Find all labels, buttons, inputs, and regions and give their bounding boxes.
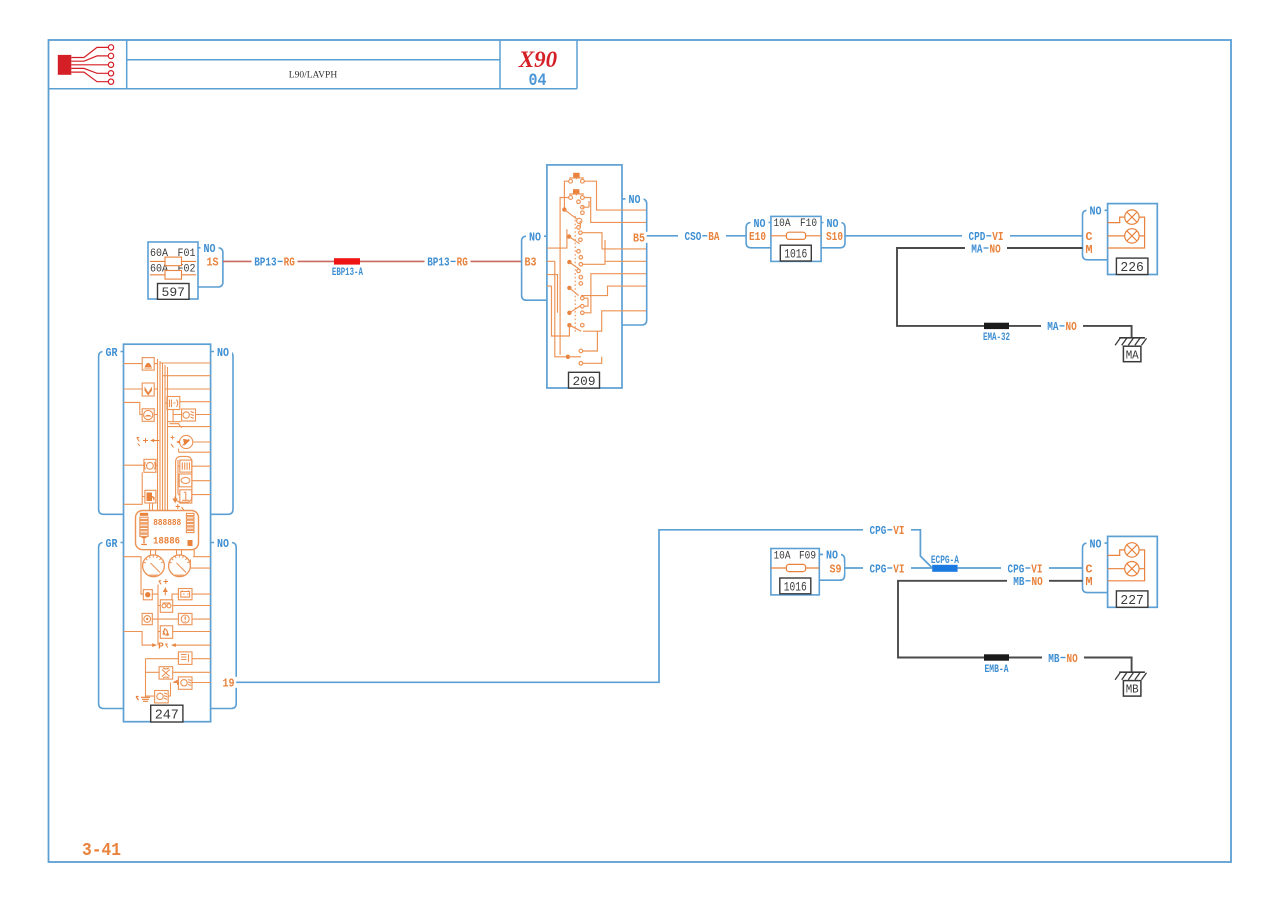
label NO (247 lower) <box>214 537 232 551</box>
svg-text:F10: F10 <box>800 218 817 230</box>
svg-text:3-41: 3-41 <box>82 841 121 861</box>
splice label EMA-32 <box>983 332 1010 344</box>
svg-text:NO: NO <box>1090 205 1102 219</box>
svg-text:MB: MB <box>1126 684 1139 697</box>
connector bracket NO/B3 on 209 <box>522 236 547 300</box>
pin S9 <box>827 562 844 576</box>
svg-text:GR: GR <box>106 537 119 551</box>
svg-text:247: 247 <box>155 708 179 724</box>
connector bracket NO/C/M on 227 <box>1083 543 1108 593</box>
pin B3 <box>523 256 540 270</box>
vehicle code L90/LAVPH <box>289 70 338 80</box>
svg-text:MB: MB <box>1048 652 1059 666</box>
sheet number 04 <box>529 71 547 91</box>
svg-text:209: 209 <box>573 374 596 389</box>
connector bracket NO/C/M on 226 <box>1083 210 1108 259</box>
connector bracket GR (247 lower) <box>99 543 124 709</box>
connector bracket NO/B5 on 209 <box>622 199 647 325</box>
sheet family X90 <box>518 47 558 72</box>
svg-text:04: 04 <box>529 71 547 91</box>
fuse box 1016 (F10) <box>771 216 821 261</box>
svg-text:M: M <box>1085 243 1092 257</box>
connector bracket NO/1S on 597 <box>198 248 223 287</box>
label NO (S10) <box>824 217 842 231</box>
svg-text:EMB-A: EMB-A <box>985 664 1009 676</box>
wire CPG-VI (S9 to splice) <box>845 567 933 569</box>
wire label BP13-RG (right) <box>425 255 471 269</box>
pin C (226) <box>1084 230 1094 244</box>
svg-text:1016: 1016 <box>784 580 807 595</box>
svg-text:MB: MB <box>1013 575 1024 589</box>
svg-text:10A: 10A <box>774 218 791 230</box>
splice label EBP13-A <box>332 267 363 279</box>
wire MA-NO (226 M to ground MA) <box>897 248 1132 338</box>
wire label MA-NO (lower) <box>1041 320 1083 334</box>
svg-text:B5: B5 <box>633 231 645 245</box>
wire CPG-VI (splice to 227) <box>958 567 1083 569</box>
svg-text:NO: NO <box>204 242 216 256</box>
svg-text:MA: MA <box>1047 320 1059 334</box>
svg-text:B3: B3 <box>525 256 537 270</box>
ground MB <box>1115 672 1146 697</box>
svg-text:18886: 18886 <box>153 536 180 548</box>
splice label EMB-A <box>985 664 1009 676</box>
svg-text:226: 226 <box>1120 261 1144 276</box>
svg-text:BP13: BP13 <box>427 256 449 270</box>
pin 1S <box>202 256 220 270</box>
splice label ECPG-A <box>931 555 959 567</box>
svg-text:NO: NO <box>1067 652 1078 666</box>
side lamp 226 <box>1108 204 1158 277</box>
pin M (227) <box>1084 575 1094 589</box>
svg-text:NO: NO <box>990 242 1001 256</box>
splice ECPG-A <box>932 565 957 572</box>
instrument cluster 247 <box>124 344 211 723</box>
splice EBP13-A <box>334 258 360 264</box>
wire label MB-NO (upper) <box>1007 575 1049 589</box>
fuse box 597 <box>148 242 198 300</box>
svg-text:NO: NO <box>629 193 641 207</box>
title block grid <box>49 40 578 89</box>
wire MB-NO (227 M to ground MB) <box>898 581 1132 672</box>
svg-text:CPG: CPG <box>870 524 887 538</box>
label NO (B5) <box>626 193 644 207</box>
connector bracket NO (247 upper) <box>211 352 233 515</box>
harness logo <box>58 45 114 85</box>
svg-text:EMA-32: EMA-32 <box>983 332 1010 344</box>
wire label CPG-VI (227) <box>1001 562 1049 576</box>
svg-text:VI: VI <box>893 562 904 576</box>
svg-text:GR: GR <box>106 346 119 360</box>
pin C (227) <box>1084 562 1094 576</box>
svg-text:597: 597 <box>162 285 186 300</box>
splice EMB-A <box>984 654 1009 660</box>
connector bracket NO/E10 <box>746 223 771 248</box>
svg-text:VI: VI <box>893 524 904 538</box>
side lamp 227 <box>1108 536 1158 609</box>
label NO (E10) <box>751 217 769 231</box>
connector bracket NO (247 lower) <box>211 543 237 709</box>
svg-text:E10: E10 <box>749 230 766 244</box>
switch assembly 209 <box>547 165 647 389</box>
svg-text:RG: RG <box>284 256 295 270</box>
svg-text:BA: BA <box>708 230 720 244</box>
label NO (247 upper) <box>214 346 232 360</box>
wire label CPG-VI (S9) <box>863 562 911 576</box>
svg-text:NO: NO <box>1066 320 1077 334</box>
wire label CSO-BA <box>678 230 726 244</box>
wire label MA-NO (upper) <box>965 242 1007 256</box>
svg-text:MA: MA <box>1126 349 1139 362</box>
pin 19 <box>220 677 238 691</box>
wire CPG-VI (247/19 to ECPG-A) <box>236 530 932 683</box>
svg-text:M: M <box>1085 575 1092 589</box>
svg-text:1016: 1016 <box>784 247 807 262</box>
svg-text:19: 19 <box>223 677 235 691</box>
wire CPD-VI <box>845 235 1083 237</box>
wire label CPG-VI (top run) <box>863 524 911 538</box>
pin M (226) <box>1084 243 1094 257</box>
svg-text:1S: 1S <box>207 256 219 270</box>
svg-text:888888: 888888 <box>153 518 181 528</box>
label NO (B3) <box>526 231 544 245</box>
svg-text:NO: NO <box>1032 575 1043 589</box>
label NO (227) <box>1087 537 1105 551</box>
svg-text:EBP13-A: EBP13-A <box>332 267 363 279</box>
label NO (597) <box>201 242 219 256</box>
svg-text:NO: NO <box>1090 537 1102 551</box>
svg-text:X90: X90 <box>518 47 558 72</box>
svg-text:P: P <box>158 641 164 652</box>
svg-text:NO: NO <box>217 537 229 551</box>
svg-text:ECPG-A: ECPG-A <box>931 555 959 567</box>
svg-text:S10: S10 <box>826 230 843 244</box>
wire label CPD-VI <box>962 230 1010 244</box>
svg-text:NO: NO <box>217 346 229 360</box>
svg-text:NO: NO <box>529 231 541 245</box>
fuse box 1016 (F09) <box>771 549 819 595</box>
svg-text:NO: NO <box>826 549 838 563</box>
ground MA <box>1115 338 1146 363</box>
svg-text:NO: NO <box>754 217 766 231</box>
wire CSO-BA <box>647 235 746 237</box>
svg-text:MA: MA <box>971 242 983 256</box>
svg-text:CSO: CSO <box>685 230 702 244</box>
svg-text:F09: F09 <box>799 550 816 562</box>
svg-text:L90/LAVPH: L90/LAVPH <box>289 70 338 80</box>
connector bracket GR (247 upper) <box>99 352 124 515</box>
label GR (lower) <box>103 537 121 551</box>
svg-text:BP13: BP13 <box>254 256 276 270</box>
label NO (S9) <box>823 549 841 563</box>
svg-text:RG: RG <box>457 256 468 270</box>
pin S10 <box>824 230 844 244</box>
splice EMA-32 <box>984 323 1009 329</box>
label GR (upper) <box>103 346 121 360</box>
pin E10 <box>748 230 768 244</box>
wire BP13 (597 to 209) <box>223 260 522 262</box>
pin B5 <box>631 231 648 245</box>
svg-text:NO: NO <box>827 217 839 231</box>
svg-text:227: 227 <box>1120 594 1144 609</box>
wire label MB-NO (lower) <box>1042 652 1084 666</box>
svg-text:CPG: CPG <box>870 562 887 576</box>
svg-text:S9: S9 <box>830 562 842 576</box>
wire label BP13-RG (left) <box>252 255 298 269</box>
label NO (226) <box>1087 205 1105 219</box>
svg-text:10A: 10A <box>774 550 791 562</box>
page number 3-41 <box>82 841 121 861</box>
connector bracket NO/S9 <box>819 554 844 580</box>
connector bracket NO/S10 <box>821 223 845 248</box>
